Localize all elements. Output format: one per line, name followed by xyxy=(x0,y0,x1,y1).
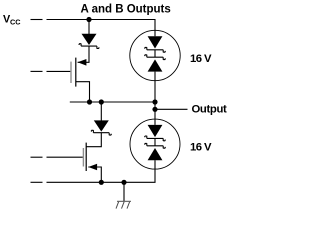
wire Vcc rail dashed stub xyxy=(31,19,43,21)
wire D2 cathode to Q2 drain xyxy=(86,133,101,147)
wire ground stub xyxy=(123,182,125,201)
ground xyxy=(116,201,131,208)
node junction bus/output column xyxy=(152,99,157,104)
wire to Output label xyxy=(155,108,188,110)
transistor Q2 channel xyxy=(85,143,87,171)
node junction D2 tap on bus xyxy=(99,99,104,104)
wire output column between clamps xyxy=(154,81,156,119)
wire common bus to output column xyxy=(70,101,155,103)
svg-text:16 V: 16 V xyxy=(190,53,212,65)
schottky diode D1 (Vcc to Q1 source) xyxy=(79,34,99,49)
transistor Q1 gate plate xyxy=(70,62,72,83)
wire ground bus xyxy=(47,169,156,182)
wire Q1 drain down to bus xyxy=(76,82,90,102)
wire Q1 gate lead dashed stub xyxy=(31,70,43,72)
node junction output tap xyxy=(152,107,157,112)
transistor Q2 gate plate xyxy=(82,148,84,167)
svg-text:CC: CC xyxy=(10,18,21,27)
node junction ground tap xyxy=(121,180,126,185)
svg-text:A and B Outputs: A and B Outputs xyxy=(81,4,171,16)
zener clamp circle Z1 (upper 16 V) xyxy=(130,30,180,80)
svg-text:16 V: 16 V xyxy=(190,141,212,153)
transistor Q1 source arrow xyxy=(78,59,87,66)
transistor Q1 channel xyxy=(75,58,77,87)
zener clamp circle Z2 (lower 16 V) xyxy=(130,119,180,169)
node junction Q1 drain on bus xyxy=(87,99,92,104)
label Vcc xyxy=(3,13,21,26)
transistor Q2 source arrow xyxy=(88,164,97,171)
wire Vcc to D1 anode xyxy=(88,20,90,35)
zener pair Z1 xyxy=(145,31,165,81)
wire Q2 gate lead dashed stub xyxy=(31,156,43,158)
wire Q1 gate lead xyxy=(47,70,71,72)
wire Vcc rail xyxy=(47,20,156,31)
zener pair Z2 xyxy=(145,119,165,169)
svg-text:Output: Output xyxy=(192,103,228,115)
wire D1 cathode to Q1 source xyxy=(78,46,89,62)
wire Q2 gate lead xyxy=(47,156,83,158)
wire ground bus dashed stub xyxy=(31,181,43,183)
wire Q2 source down to ground bus xyxy=(88,167,101,182)
node junction Q2 source on ground bus xyxy=(99,180,104,185)
schottky diode D2 (bus to Q2 drain) xyxy=(91,120,111,135)
wire bus to D2 anode xyxy=(100,102,102,121)
node junction Vcc/D1 xyxy=(86,17,91,22)
